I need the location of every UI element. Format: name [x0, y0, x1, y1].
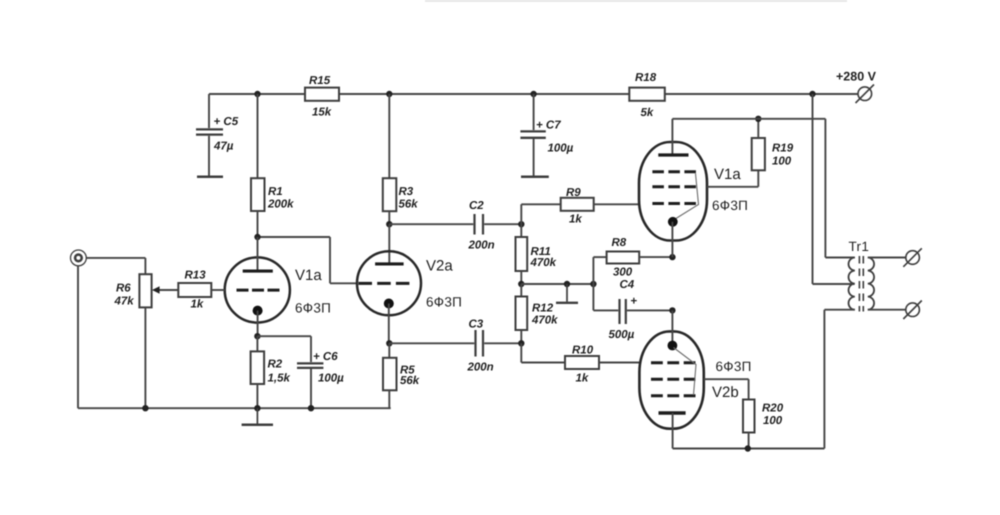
svg-text:C2: C2 [469, 200, 484, 212]
cathode lead [388, 304, 390, 344]
wire V1a anode to Tr1 primary top [672, 119, 854, 258]
ground main [242, 408, 273, 425]
svg-text:R9: R9 [566, 187, 581, 199]
svg-text:R12: R12 [532, 303, 554, 315]
grid rows [651, 361, 696, 364]
svg-text:R13: R13 [185, 270, 207, 282]
node C4 right [669, 307, 675, 313]
svg-text:1k: 1k [576, 373, 589, 385]
node R19 top [755, 116, 761, 122]
transformer Tr1 [849, 239, 906, 312]
svg-text:Tr1: Tr1 [849, 239, 870, 254]
node R11/R12 [518, 281, 524, 287]
capacitor C4 [593, 279, 672, 341]
svg-text:6Ф3П: 6Ф3П [295, 301, 331, 316]
node V1a cathode [254, 333, 260, 339]
node R20 bottom [745, 445, 751, 451]
svg-text:+ C5: + C5 [214, 116, 239, 128]
svg-text:100: 100 [772, 156, 792, 168]
capacitor C5 [196, 94, 239, 176]
cathode bar [659, 411, 686, 414]
anode lead [671, 119, 673, 155]
ground tap [556, 284, 578, 303]
node R8 left [590, 281, 596, 287]
node C6 ground [308, 405, 314, 411]
node R1 top [254, 91, 260, 97]
svg-text:V2a: V2a [426, 258, 453, 275]
cathode dot [668, 217, 678, 227]
svg-text:R3: R3 [399, 186, 414, 198]
wiper arrow [152, 286, 160, 293]
primary winding [849, 258, 855, 310]
resistor R9 [521, 187, 640, 226]
svg-text:47k: 47k [114, 296, 135, 308]
input connector [71, 250, 87, 266]
terminal output top [903, 248, 922, 266]
svg-text:1k: 1k [569, 214, 582, 226]
svg-text:R1: R1 [268, 186, 283, 198]
svg-text:100µ: 100µ [548, 143, 574, 155]
resistor R15 [305, 75, 339, 119]
pentode V1a (output) [639, 119, 748, 257]
svg-text:5k: 5k [641, 107, 654, 119]
wire B+ rail [209, 93, 858, 95]
svg-text:R8: R8 [612, 237, 627, 249]
resistor R12 [516, 284, 559, 343]
svg-text:6Ф3П: 6Ф3П [716, 359, 752, 374]
node R2 ground [254, 405, 260, 411]
wire input ground [77, 266, 79, 408]
resistor R20 [704, 379, 784, 448]
svg-text:C4: C4 [620, 279, 635, 291]
svg-text:C3: C3 [469, 319, 484, 331]
node R3 bottom [386, 221, 392, 227]
potentiometer R6 [86, 258, 159, 408]
resistor R19 [707, 119, 794, 187]
ground C7 [521, 176, 549, 179]
resistor R2 [251, 336, 291, 408]
cathode lead [672, 413, 674, 449]
svg-text:V2b: V2b [712, 384, 739, 401]
node C7 top [530, 91, 536, 97]
svg-text:15k: 15k [312, 107, 332, 119]
capacitor C2 [389, 200, 521, 252]
internal link [674, 174, 699, 221]
svg-text:200n: 200n [468, 240, 495, 252]
node V1a anode [254, 234, 260, 240]
wire R3 to V2a anode [388, 224, 390, 264]
svg-text:+ C6: + C6 [313, 351, 338, 363]
resistor R11 [516, 224, 557, 284]
svg-text:R6: R6 [116, 283, 131, 295]
svg-text:+280 V: +280 V [836, 70, 877, 84]
resistor R1 [251, 94, 294, 237]
ground C5 [197, 176, 223, 179]
svg-text:470k: 470k [531, 315, 558, 327]
wire Tr1 primary bottom to cathode rail [673, 310, 855, 449]
terminal output bottom [903, 301, 922, 320]
svg-text:100: 100 [763, 415, 783, 427]
cathode lead [257, 311, 259, 337]
anode dot [668, 341, 678, 351]
svg-text:300: 300 [613, 267, 633, 279]
svg-text:+: + [631, 296, 638, 308]
svg-text:1k: 1k [191, 299, 204, 311]
svg-text:R2: R2 [268, 359, 283, 371]
resistor R5 [383, 343, 420, 408]
anode bar [658, 153, 688, 156]
resistor R8 [593, 237, 672, 310]
wire +280V to Tr1 tap [813, 94, 855, 284]
resistor R3 [383, 94, 418, 224]
grid dashes [359, 282, 410, 285]
wire ground rail [78, 407, 391, 409]
wire V1a anode node to V2a grid [258, 237, 358, 283]
svg-text:R10: R10 [572, 345, 594, 357]
anode bar [243, 270, 273, 273]
node R3 top [386, 91, 392, 97]
node V2a cathode [386, 340, 392, 346]
svg-text:200n: 200n [467, 362, 494, 374]
node C3 right [518, 340, 524, 346]
svg-text:6Ф3П: 6Ф3П [712, 198, 748, 213]
anode lead [257, 237, 259, 271]
svg-text:R20: R20 [762, 403, 784, 415]
svg-text:470k: 470k [530, 257, 557, 269]
faint top border line [425, 0, 847, 2]
secondary top lead [868, 257, 906, 259]
svg-text:500µ: 500µ [609, 329, 635, 341]
svg-text:R15: R15 [309, 75, 331, 87]
resistor R18 [629, 72, 665, 119]
triode V1a (driver) [225, 237, 331, 336]
svg-text:1,5k: 1,5k [268, 373, 291, 385]
resistor R13 [157, 270, 225, 311]
wire node run [521, 283, 593, 285]
triode V2a [357, 251, 462, 343]
node pot ground [142, 405, 148, 411]
cathode dot [384, 299, 394, 309]
node R8 right [669, 254, 675, 260]
node C2 right [518, 221, 524, 227]
svg-text:V1a: V1a [295, 267, 322, 284]
grid rows [652, 170, 696, 173]
svg-text:47µ: 47µ [213, 141, 234, 153]
anode bar [375, 262, 404, 265]
svg-text:56k: 56k [399, 199, 419, 211]
svg-text:V1a: V1a [714, 166, 741, 183]
pentode V2b [639, 310, 751, 448]
svg-text:200k: 200k [267, 199, 294, 211]
cathode lead [671, 222, 673, 257]
node +280V junction [809, 91, 815, 97]
svg-text:R18: R18 [635, 72, 657, 84]
capacitor C3 [389, 319, 521, 374]
svg-text:+ C7: + C7 [536, 120, 561, 132]
secondary bottom lead [868, 309, 906, 311]
capacitor C6 [257, 336, 344, 408]
resistor R10 [521, 343, 640, 384]
terminal +280V [856, 85, 875, 104]
grid dashes [237, 289, 280, 292]
svg-text:6Ф3П: 6Ф3П [426, 295, 462, 310]
internal link [674, 348, 697, 396]
cathode dot [253, 306, 263, 316]
anode lead [671, 310, 673, 345]
secondary winding [868, 258, 874, 310]
svg-text:100µ: 100µ [318, 373, 344, 385]
capacitor C7 [520, 94, 573, 176]
svg-text:R19: R19 [772, 143, 794, 155]
core [858, 256, 860, 312]
svg-text:56k: 56k [400, 375, 420, 387]
node gnd tap [564, 281, 570, 287]
